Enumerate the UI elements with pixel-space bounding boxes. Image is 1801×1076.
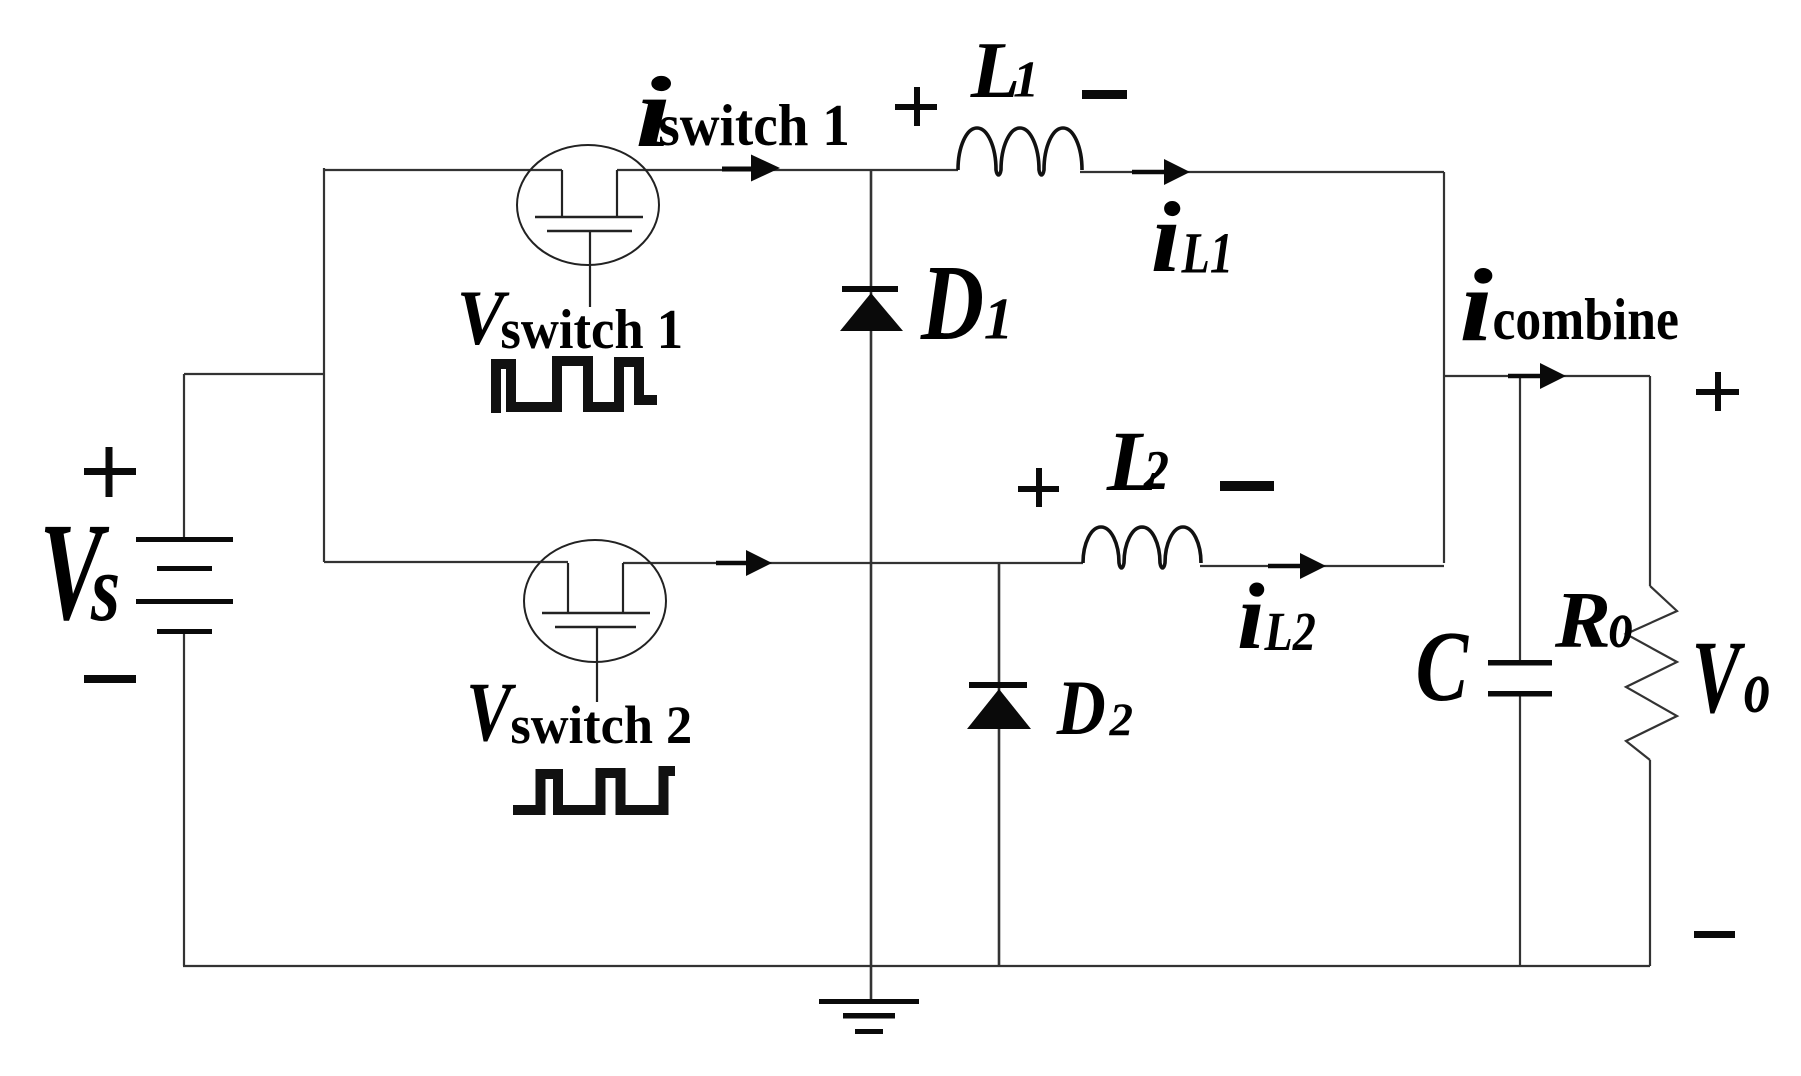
wire top rail right xyxy=(1080,171,1444,173)
wire top rail left xyxy=(324,169,562,171)
svg-text:switch 1: switch 1 xyxy=(658,93,850,158)
diode D2 xyxy=(967,682,1031,729)
svg-text:o: o xyxy=(1609,588,1633,662)
square wave V_switch1 xyxy=(496,361,657,413)
wire feed vertical from source split xyxy=(323,168,325,562)
plus sign output xyxy=(1696,372,1739,411)
svg-text:o: o xyxy=(1744,646,1771,729)
wire top rail mid xyxy=(617,169,958,171)
svg-text:s: s xyxy=(90,534,120,641)
wire rail2 right xyxy=(1200,565,1444,567)
capacitor C plates xyxy=(1488,660,1552,697)
svg-text:1: 1 xyxy=(984,286,1014,352)
wire battery minus vertical xyxy=(183,633,185,966)
minus sign L2 xyxy=(1220,481,1274,491)
svg-text:i: i xyxy=(1151,181,1181,293)
svg-text:R: R xyxy=(1554,576,1611,665)
ground xyxy=(819,999,919,1034)
plus sign L1 xyxy=(895,87,937,126)
svg-text:D: D xyxy=(1056,664,1106,750)
plus sign L2 xyxy=(1018,468,1059,507)
arrow i_L2 xyxy=(1268,553,1326,579)
transistor Q2 (switch 2 MOSFET) xyxy=(524,540,666,702)
resistor Ro zigzag xyxy=(1626,586,1677,760)
arrow i_L1 xyxy=(1132,159,1190,185)
inductor L1 xyxy=(958,128,1082,175)
wire i_combine horizontal xyxy=(1444,375,1650,377)
svg-text:i: i xyxy=(1459,249,1493,364)
svg-text:2: 2 xyxy=(1109,694,1134,746)
svg-text:D: D xyxy=(920,243,984,363)
svg-text:V: V xyxy=(466,664,516,759)
wire rail2 mid xyxy=(623,562,1083,564)
svg-text:1: 1 xyxy=(1013,52,1039,109)
wire capacitor branch top xyxy=(1519,376,1521,661)
transistor Q1 (switch 1 MOSFET) xyxy=(517,145,659,307)
svg-text:i: i xyxy=(1237,564,1265,668)
wire capacitor branch bottom xyxy=(1519,695,1521,966)
square wave V_switch2 xyxy=(513,771,675,810)
svg-text:L2: L2 xyxy=(1264,601,1316,662)
plus sign Vs xyxy=(84,447,136,497)
svg-text:switch 1: switch 1 xyxy=(500,299,683,361)
svg-text:V: V xyxy=(1692,620,1746,735)
wire resistor branch top xyxy=(1649,376,1651,586)
wire D2 branch vertical xyxy=(998,563,1001,966)
svg-text:combine: combine xyxy=(1493,287,1679,352)
inductor L2 xyxy=(1083,527,1201,568)
wire battery plus vertical xyxy=(183,374,185,538)
arrow i_combine xyxy=(1508,363,1566,389)
wire D1 branch vertical xyxy=(870,170,873,1000)
wire resistor branch bottom xyxy=(1649,760,1651,966)
wire bottom rail xyxy=(183,965,1650,967)
wire battery plus horizontal xyxy=(184,373,324,375)
svg-text:2: 2 xyxy=(1143,439,1169,502)
battery Vs plates xyxy=(136,537,233,634)
minus sign output xyxy=(1694,931,1735,938)
arrow i_switch1 xyxy=(722,155,780,182)
minus sign L1 xyxy=(1082,90,1127,99)
svg-text:switch 2: switch 2 xyxy=(510,695,692,755)
svg-text:C: C xyxy=(1416,610,1470,723)
wire rail2 left xyxy=(324,561,568,563)
diode D1 xyxy=(840,286,903,331)
svg-text:L1: L1 xyxy=(1181,222,1233,286)
arrow on switch2 rail xyxy=(716,550,772,576)
minus sign Vs xyxy=(84,675,136,683)
wire right combine vertical xyxy=(1443,172,1445,563)
